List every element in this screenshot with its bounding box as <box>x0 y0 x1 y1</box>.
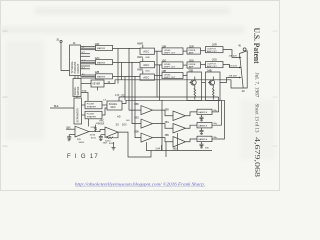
wire pulse shaper 2 to signal gen <box>102 108 121 118</box>
wire 20G to CRT green gun 41G <box>223 65 242 69</box>
svg-text:5G: 5G <box>116 125 119 127</box>
drive amp box 30G <box>187 58 201 68</box>
sample hold box G <box>197 123 218 128</box>
comparator D5R <box>134 104 152 114</box>
svg-text:SAMPLE: SAMPLE <box>198 138 207 141</box>
level shifter box 10G <box>161 58 183 68</box>
right edge registration tick top <box>273 30 278 33</box>
wire 35R to sample hold R <box>186 112 198 116</box>
right edge registration tick bottom <box>273 145 278 148</box>
hold capacitor B <box>200 142 210 150</box>
svg-text:F I G 17: F I G 17 <box>67 154 99 160</box>
clamp opamp 1 <box>75 126 89 144</box>
TV signal processor U11 <box>70 45 81 76</box>
AGC box B <box>137 67 155 80</box>
APC labels <box>98 120 105 126</box>
output stage box 33B with transistor <box>187 68 202 100</box>
wire sync matrix to keyer <box>81 83 91 85</box>
right edge registration tick middle <box>273 96 278 99</box>
wire 17D feedback top <box>119 94 219 101</box>
stub 35G bottom to bus 1-04 <box>155 145 161 151</box>
feedback wire AGC R loop <box>157 51 158 98</box>
wire 10R to drive amp 30R <box>183 50 187 52</box>
svg-text:BLK: BLK <box>54 105 59 108</box>
svg-text:SIGNAL: SIGNAL <box>109 103 118 106</box>
feedback wire AGC G loop <box>159 64 160 100</box>
wire 57X sync matrix to pulse shaper <box>81 91 88 102</box>
wire matrix R to AGC R <box>113 48 141 50</box>
svg-text:D5B: D5B <box>134 132 139 134</box>
wire 30R to output amp 20R <box>201 50 206 52</box>
wire keyer to signal gen 7A <box>97 87 99 91</box>
pulse shaper box 1 <box>85 101 102 109</box>
svg-text:VBX: VBX <box>103 143 108 145</box>
output amp box 20R <box>206 42 224 53</box>
svg-text:30K: 30K <box>205 148 209 150</box>
feedback wire sample G up <box>212 100 222 125</box>
left edge registration tick middle <box>3 97 8 98</box>
left edge registration tick bottom <box>3 146 8 147</box>
svg-text:10R: 10R <box>161 44 166 48</box>
svg-text:SAMPLE: SAMPLE <box>198 111 207 114</box>
svg-text:PULSE: PULSE <box>87 104 95 106</box>
svg-text:2-55X: 2-55X <box>98 123 105 125</box>
wire BLK input <box>50 105 74 108</box>
feedback wire sample B up <box>212 100 225 139</box>
hold capacitor R <box>200 115 204 121</box>
wire opamp2 output to bottom bus <box>118 132 151 157</box>
svg-text:35B: 35B <box>165 135 170 137</box>
vertical bus wire to comparator B <box>135 77 141 138</box>
svg-text:60G: 60G <box>146 70 150 72</box>
stub D5B to bus <box>146 142 148 150</box>
svg-text:30G: 30G <box>189 58 194 62</box>
output amp box 20G <box>206 57 224 68</box>
feedback wire sample R up <box>212 97 219 112</box>
svg-text:AGC: AGC <box>143 63 149 67</box>
clamp opamp 2 <box>105 125 127 138</box>
wire AGC G to level shifter 10G <box>155 64 163 66</box>
svg-text:12B: 12B <box>95 70 100 74</box>
AGC box G <box>137 55 155 68</box>
left edge registration tick top <box>3 31 8 32</box>
antenna input terminal 10 <box>56 38 62 43</box>
svg-text:AMP: AMP <box>189 51 194 54</box>
wire separator to pulse shaper 2 <box>82 114 86 116</box>
wire sync matrix to separator <box>76 97 78 99</box>
wire opamp1 to opamp2 with resistor 52G3 <box>89 125 105 137</box>
svg-text:20G: 20G <box>212 57 217 61</box>
svg-text:20R: 20R <box>212 42 217 46</box>
svg-text:54XG: 54XG <box>79 142 85 144</box>
pin stub wires <box>81 54 91 69</box>
matrix box 12B <box>95 70 113 79</box>
wire 35B to sample hold B <box>186 139 198 142</box>
svg-text:CIRCUIT: CIRCUIT <box>77 63 80 73</box>
svg-text:60R: 60R <box>146 57 150 59</box>
CRT funnel 43 <box>238 46 247 93</box>
svg-text:Jul. 7, 1987: Jul. 7, 1987 <box>254 73 260 98</box>
svg-text:Sheet 13 of 13: Sheet 13 of 13 <box>254 104 259 133</box>
vertical bus wire to comparator R <box>129 49 141 111</box>
svg-text:http://obsoletetellyemuseum.bl: http://obsoletetellyemuseum.blogspot.com… <box>75 181 205 186</box>
sample hold box B <box>197 136 218 141</box>
svg-text:33B: 33B <box>188 68 193 72</box>
svg-text:SHAPER: SHAPER <box>87 105 96 108</box>
svg-text:MATRIX: MATRIX <box>97 47 106 50</box>
wire 20R to CRT red gun 41R <box>223 50 242 59</box>
svg-text:APC: APC <box>99 120 104 123</box>
amp 35B <box>165 135 186 147</box>
bottom ground bus <box>146 150 212 152</box>
wire row B drop to bus <box>124 77 126 101</box>
svg-text:41R 42R: 41R 42R <box>229 56 238 58</box>
svg-text:4,679,068: 4,679,068 <box>253 137 261 178</box>
opamp2 input capacitor to ground <box>99 135 108 145</box>
svg-text:AGC: AGC <box>143 50 149 54</box>
wire 30G to output amp 20G <box>201 64 206 66</box>
svg-text:17D: 17D <box>121 94 126 97</box>
svg-text:S2G1: S2G1 <box>91 138 97 140</box>
svg-text:AMP: AMP <box>189 65 194 68</box>
wire 10B to output stage 33B <box>183 75 187 77</box>
svg-text:AGC: AGC <box>143 76 149 80</box>
svg-text:57X: 57X <box>82 91 87 93</box>
sample hold box R <box>197 109 218 114</box>
svg-text:5GX: 5GX <box>122 125 127 127</box>
svg-text:AWR: AWR <box>137 41 143 45</box>
wire D5B to amp 35B <box>153 138 174 142</box>
wire row G drop to bus <box>121 63 123 80</box>
clamp opamp 58X input stub 1 <box>66 127 75 129</box>
svg-text:36D: 36D <box>173 149 178 151</box>
wire keyer output 13 <box>104 80 243 88</box>
svg-text:SHIFT CKT: SHIFT CKT <box>164 53 176 55</box>
wires processor to matrix B <box>81 75 96 78</box>
ground below feedback resistor <box>112 142 116 150</box>
svg-text:PULSE: PULSE <box>87 114 95 116</box>
wire D5R to amp 35R <box>153 110 174 116</box>
AGC box R <box>137 41 155 54</box>
svg-text:1-04: 1-04 <box>155 149 160 151</box>
vertical wire clamp pulse feed <box>165 142 167 157</box>
feedback resistor S2G2 <box>105 132 118 145</box>
svg-text:52G1: 52G1 <box>91 127 97 129</box>
svg-text:S2G2: S2G2 <box>105 140 111 142</box>
svg-text:34B: 34B <box>207 68 212 72</box>
svg-text:12R: 12R <box>95 42 100 46</box>
svg-text:AWG: AWG <box>137 55 143 59</box>
wire feedback bus 2 <box>122 100 225 103</box>
svg-text:SHAPER: SHAPER <box>87 115 96 118</box>
svg-text:KEYER: KEYER <box>92 84 100 86</box>
svg-text:SAMPLE: SAMPLE <box>198 125 207 128</box>
processor output pin labels <box>82 46 86 76</box>
matrix box 12R <box>95 42 113 51</box>
signal generator box 17 <box>103 94 122 110</box>
wires processor to sync matrix <box>75 76 78 79</box>
svg-text:11: 11 <box>73 41 76 45</box>
svg-text:SEPARATOR: SEPARATOR <box>77 108 80 123</box>
wire antenna to processor <box>61 43 70 71</box>
wire row R drop to keyer bus <box>117 49 119 84</box>
comparator D5B <box>134 132 152 142</box>
svg-text:63X: 63X <box>77 139 81 141</box>
wires processor to matrix R <box>81 47 96 50</box>
svg-text:58X: 58X <box>66 127 71 129</box>
matrix box 12G <box>95 56 113 65</box>
wire separator to pulse shaper 1 <box>82 104 86 106</box>
vertical wire mid clamp section <box>161 100 163 150</box>
level shifter box 10R <box>161 44 183 54</box>
wire pulse shaper 1 to signal gen <box>102 104 107 106</box>
wire AGC R to level shifter 10R <box>155 50 163 52</box>
vertical bus wire to comparator G <box>132 63 141 124</box>
wire matrix G to AGC G <box>113 62 141 64</box>
svg-text:AWB: AWB <box>137 67 143 71</box>
svg-text:MATRIX: MATRIX <box>97 61 106 64</box>
svg-text:GEN: GEN <box>110 107 115 109</box>
svg-text:40: 40 <box>242 89 245 93</box>
comparator D5G <box>134 118 152 128</box>
drive amp box 30R <box>187 44 201 54</box>
amp 35R <box>165 109 186 120</box>
svg-text:D5R: D5R <box>134 104 139 106</box>
keyer box 16 <box>91 80 104 87</box>
stub 35G to bus 36D <box>173 133 178 151</box>
wire 33B to 34B <box>202 82 206 84</box>
svg-text:10: 10 <box>56 38 59 42</box>
svg-text:AMP CKT: AMP CKT <box>207 50 217 53</box>
svg-text:SHIFT CKT: SHIFT CKT <box>164 77 176 79</box>
svg-text:12G: 12G <box>95 56 100 60</box>
watermark underline <box>75 185 205 187</box>
junction node row R bus <box>129 48 130 49</box>
hold capacitor G <box>200 128 204 134</box>
svg-text:35R: 35R <box>165 109 170 111</box>
svg-text:AMP CKT: AMP CKT <box>207 65 217 68</box>
junction node row B bus <box>135 76 136 77</box>
wire pulse shaper 2 to clamp opamp <box>88 119 90 127</box>
svg-text:41G 42G: 41G 42G <box>229 66 238 68</box>
svg-text:MATRIX: MATRIX <box>97 76 106 79</box>
wire AGC B to level shifter 10B <box>155 75 163 77</box>
svg-text:62G1: 62G1 <box>109 143 115 145</box>
svg-text:10G: 10G <box>161 58 166 62</box>
clamp opamp input stub 2 with capacitor to ground <box>67 135 75 141</box>
wire 34B to CRT blue gun 41B <box>220 76 242 83</box>
wire 35G to sample hold G <box>186 125 198 128</box>
svg-text:D5G: D5G <box>134 118 139 120</box>
wire matrix B to AGC B <box>113 76 141 78</box>
svg-text:U.S. Patent: U.S. Patent <box>252 28 262 64</box>
svg-text:MATRIX: MATRIX <box>77 86 80 95</box>
svg-text:41B 42B: 41B 42B <box>229 76 238 78</box>
svg-text:30R: 30R <box>189 44 194 48</box>
svg-text:SHIFT CKT: SHIFT CKT <box>164 67 176 69</box>
wire D5G to amp 35G <box>153 124 174 129</box>
output stage box 34B with transistor <box>206 68 221 100</box>
wire 10G to drive amp 30G <box>183 64 187 66</box>
pulse shaper box 2 <box>85 111 102 119</box>
svg-text:52G3: 52G3 <box>90 134 96 136</box>
junction node row G bus <box>132 62 133 63</box>
svg-text:HD: HD <box>117 116 121 118</box>
separator box 15 <box>74 98 82 124</box>
amp 35G <box>165 122 186 133</box>
wires processor to matrix G <box>81 61 96 64</box>
svg-text:10B: 10B <box>161 69 166 73</box>
level shifter box 10B <box>161 69 183 79</box>
svg-text:35G: 35G <box>165 122 170 124</box>
sync matrix box 14 <box>73 79 81 97</box>
